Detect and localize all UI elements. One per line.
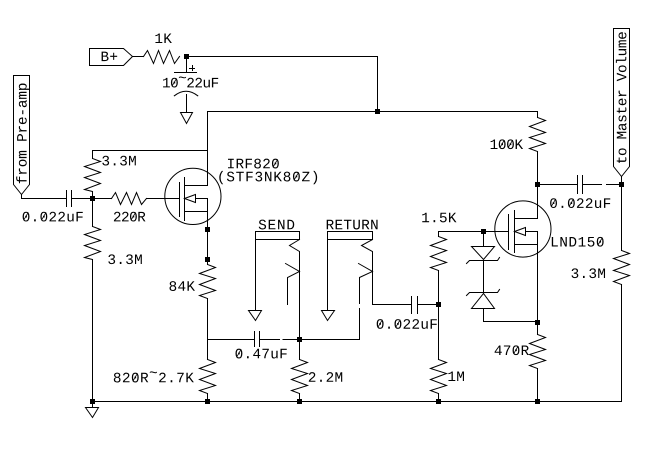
transistor Q1 IRF820 (165, 168, 221, 224)
wire input (22, 195, 67, 199)
resistor R 820R~2.7K (207, 340, 209, 360)
resistor R 2.2M (299, 340, 301, 360)
wire zener stub (483, 232, 485, 247)
node Q2 source (535, 320, 540, 325)
wire cap to node A (72, 198, 93, 200)
wire drain rail (208, 111, 538, 113)
ground main (86, 408, 99, 418)
wire gap artifact 3 (359, 304, 360, 308)
wire gate Q1 (147, 198, 180, 200)
wire gate Q2 (439, 231, 509, 233)
resistor R 3.3M lower (92, 199, 94, 227)
resistor R 220R (93, 198, 112, 200)
label 10~22uF (163, 78, 170, 87)
wire 3.3M top to drain (93, 150, 208, 152)
capacitor C 0.022uF input (66, 191, 68, 207)
wire mid cap to node B (418, 304, 439, 306)
node rail left (90, 399, 95, 404)
node Q2 drain (535, 182, 540, 187)
wire gap artifact 2 (602, 184, 606, 185)
wire Q1 source (207, 212, 209, 265)
ground SEND (249, 311, 262, 321)
output flag to Master Volume (614, 29, 630, 177)
wire Q2 drain (537, 185, 539, 219)
resistor R 3.3M output (621, 185, 623, 251)
capacitor C 0.022uF output (577, 176, 579, 194)
node 470R rail (535, 399, 540, 404)
ground RETURN (322, 311, 335, 321)
wire supply top (187, 57, 378, 112)
node source chain (205, 257, 210, 262)
capacitor C 0.47uF (254, 332, 256, 347)
label IRF820 (228, 159, 234, 168)
wire zener link (483, 261, 485, 293)
wire gap artifact 1 (280, 339, 283, 340)
resistor R 1.5K (438, 232, 440, 237)
power flag B+ (90, 49, 133, 66)
label SEND (259, 220, 266, 230)
resistor R 1M (438, 305, 440, 360)
wire cap to ground (186, 95, 188, 113)
wire output left (538, 184, 578, 186)
wire Q1 drain (207, 112, 209, 186)
resistor R 84K (200, 265, 216, 299)
zener diode D1 (472, 247, 495, 260)
node 1M rail (436, 399, 441, 404)
ground B+ cap (181, 113, 193, 124)
wire zener to source (484, 309, 538, 322)
wire 0.47uF left (208, 339, 255, 341)
jack J2 RETURN (328, 232, 373, 240)
label LND150 (552, 237, 558, 246)
node 2.2M rail (297, 399, 302, 404)
input flag from Pre-amp (14, 76, 30, 195)
node A (90, 196, 95, 201)
resistor R 470R (537, 323, 539, 335)
wire Q2 source (537, 245, 539, 323)
wire return tip (373, 304, 412, 306)
node B (436, 302, 441, 307)
jack J1 SEND (256, 232, 300, 240)
node send-return (297, 337, 302, 342)
label RETURN (327, 220, 334, 229)
wire B+ to R1 (133, 56, 144, 58)
transistor Q2 LND150 (495, 201, 551, 257)
resistor R 100K (537, 112, 539, 118)
node output (619, 182, 624, 187)
node Q1 source (205, 227, 210, 232)
wire 0.47uF right (260, 339, 300, 341)
zener diode D2 (467, 290, 500, 296)
node zener tap (481, 229, 486, 234)
node supply drop (375, 109, 380, 114)
wire output right (583, 184, 622, 186)
node supply (184, 54, 189, 59)
capacitor C 0.022uF mid (411, 297, 413, 314)
resistor R 3.3M upper (92, 151, 94, 159)
node 820R rail (205, 399, 210, 404)
resistor R 1K (144, 51, 180, 64)
wire rail to ground (92, 402, 94, 408)
capacitor C 10~22uF (186, 58, 188, 73)
wire ground rail (93, 401, 622, 403)
